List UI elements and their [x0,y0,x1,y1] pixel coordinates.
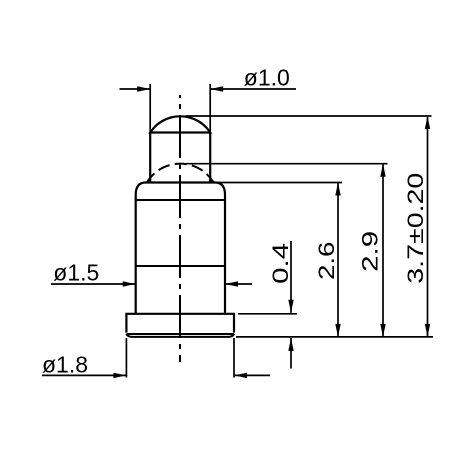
flange [126,314,234,333]
dim 3.7 arrows [425,116,430,129]
body crimp line [136,265,225,267]
right extension line top (3.7) [186,115,432,117]
dim 2.9 line [382,164,384,337]
svg-text:0.4: 0.4 [268,243,293,284]
body outline [136,183,225,314]
dim 0.4 lines [290,241,292,313]
dim ø1.8 arrows [113,373,126,378]
svg-text:2.9: 2.9 [358,231,383,272]
dim ø1.5 lines [51,283,136,285]
svg-text:ø1.8: ø1.8 [42,351,88,377]
centerline [179,95,181,362]
svg-text:ø1.0: ø1.0 [244,65,290,91]
dim ø1.8 extension lines [125,338,127,378]
dim 0.4 arrows [288,300,293,313]
dim 2.6 arrows [335,183,340,196]
flange inner bottom line [126,333,234,335]
dim 2.6 line [337,183,339,337]
right extension line 2.6 [215,182,343,184]
dim ø1.0 arrows [137,86,150,91]
dim ø1.0 lines [120,88,151,90]
dim ø1.0 extension lines [149,84,151,133]
flange bottom [126,334,234,337]
dim ø1.8 lines [42,374,126,376]
dim 3.7 line [427,116,429,337]
svg-text:ø1.5: ø1.5 [53,259,99,285]
dim ø1.5 arrows [123,281,136,286]
hidden dome dashed arc [147,164,214,183]
right extension line 2.9 [186,163,388,165]
body seam line [136,199,225,201]
plunger sides [149,133,151,184]
flange top extension line [238,313,297,315]
dim 2.9 arrows [380,164,385,177]
svg-text:3.7±0.20: 3.7±0.20 [403,173,428,284]
plunger dome [150,116,210,132]
flange bottom extension line [236,336,433,338]
svg-text:2.6: 2.6 [314,242,339,281]
